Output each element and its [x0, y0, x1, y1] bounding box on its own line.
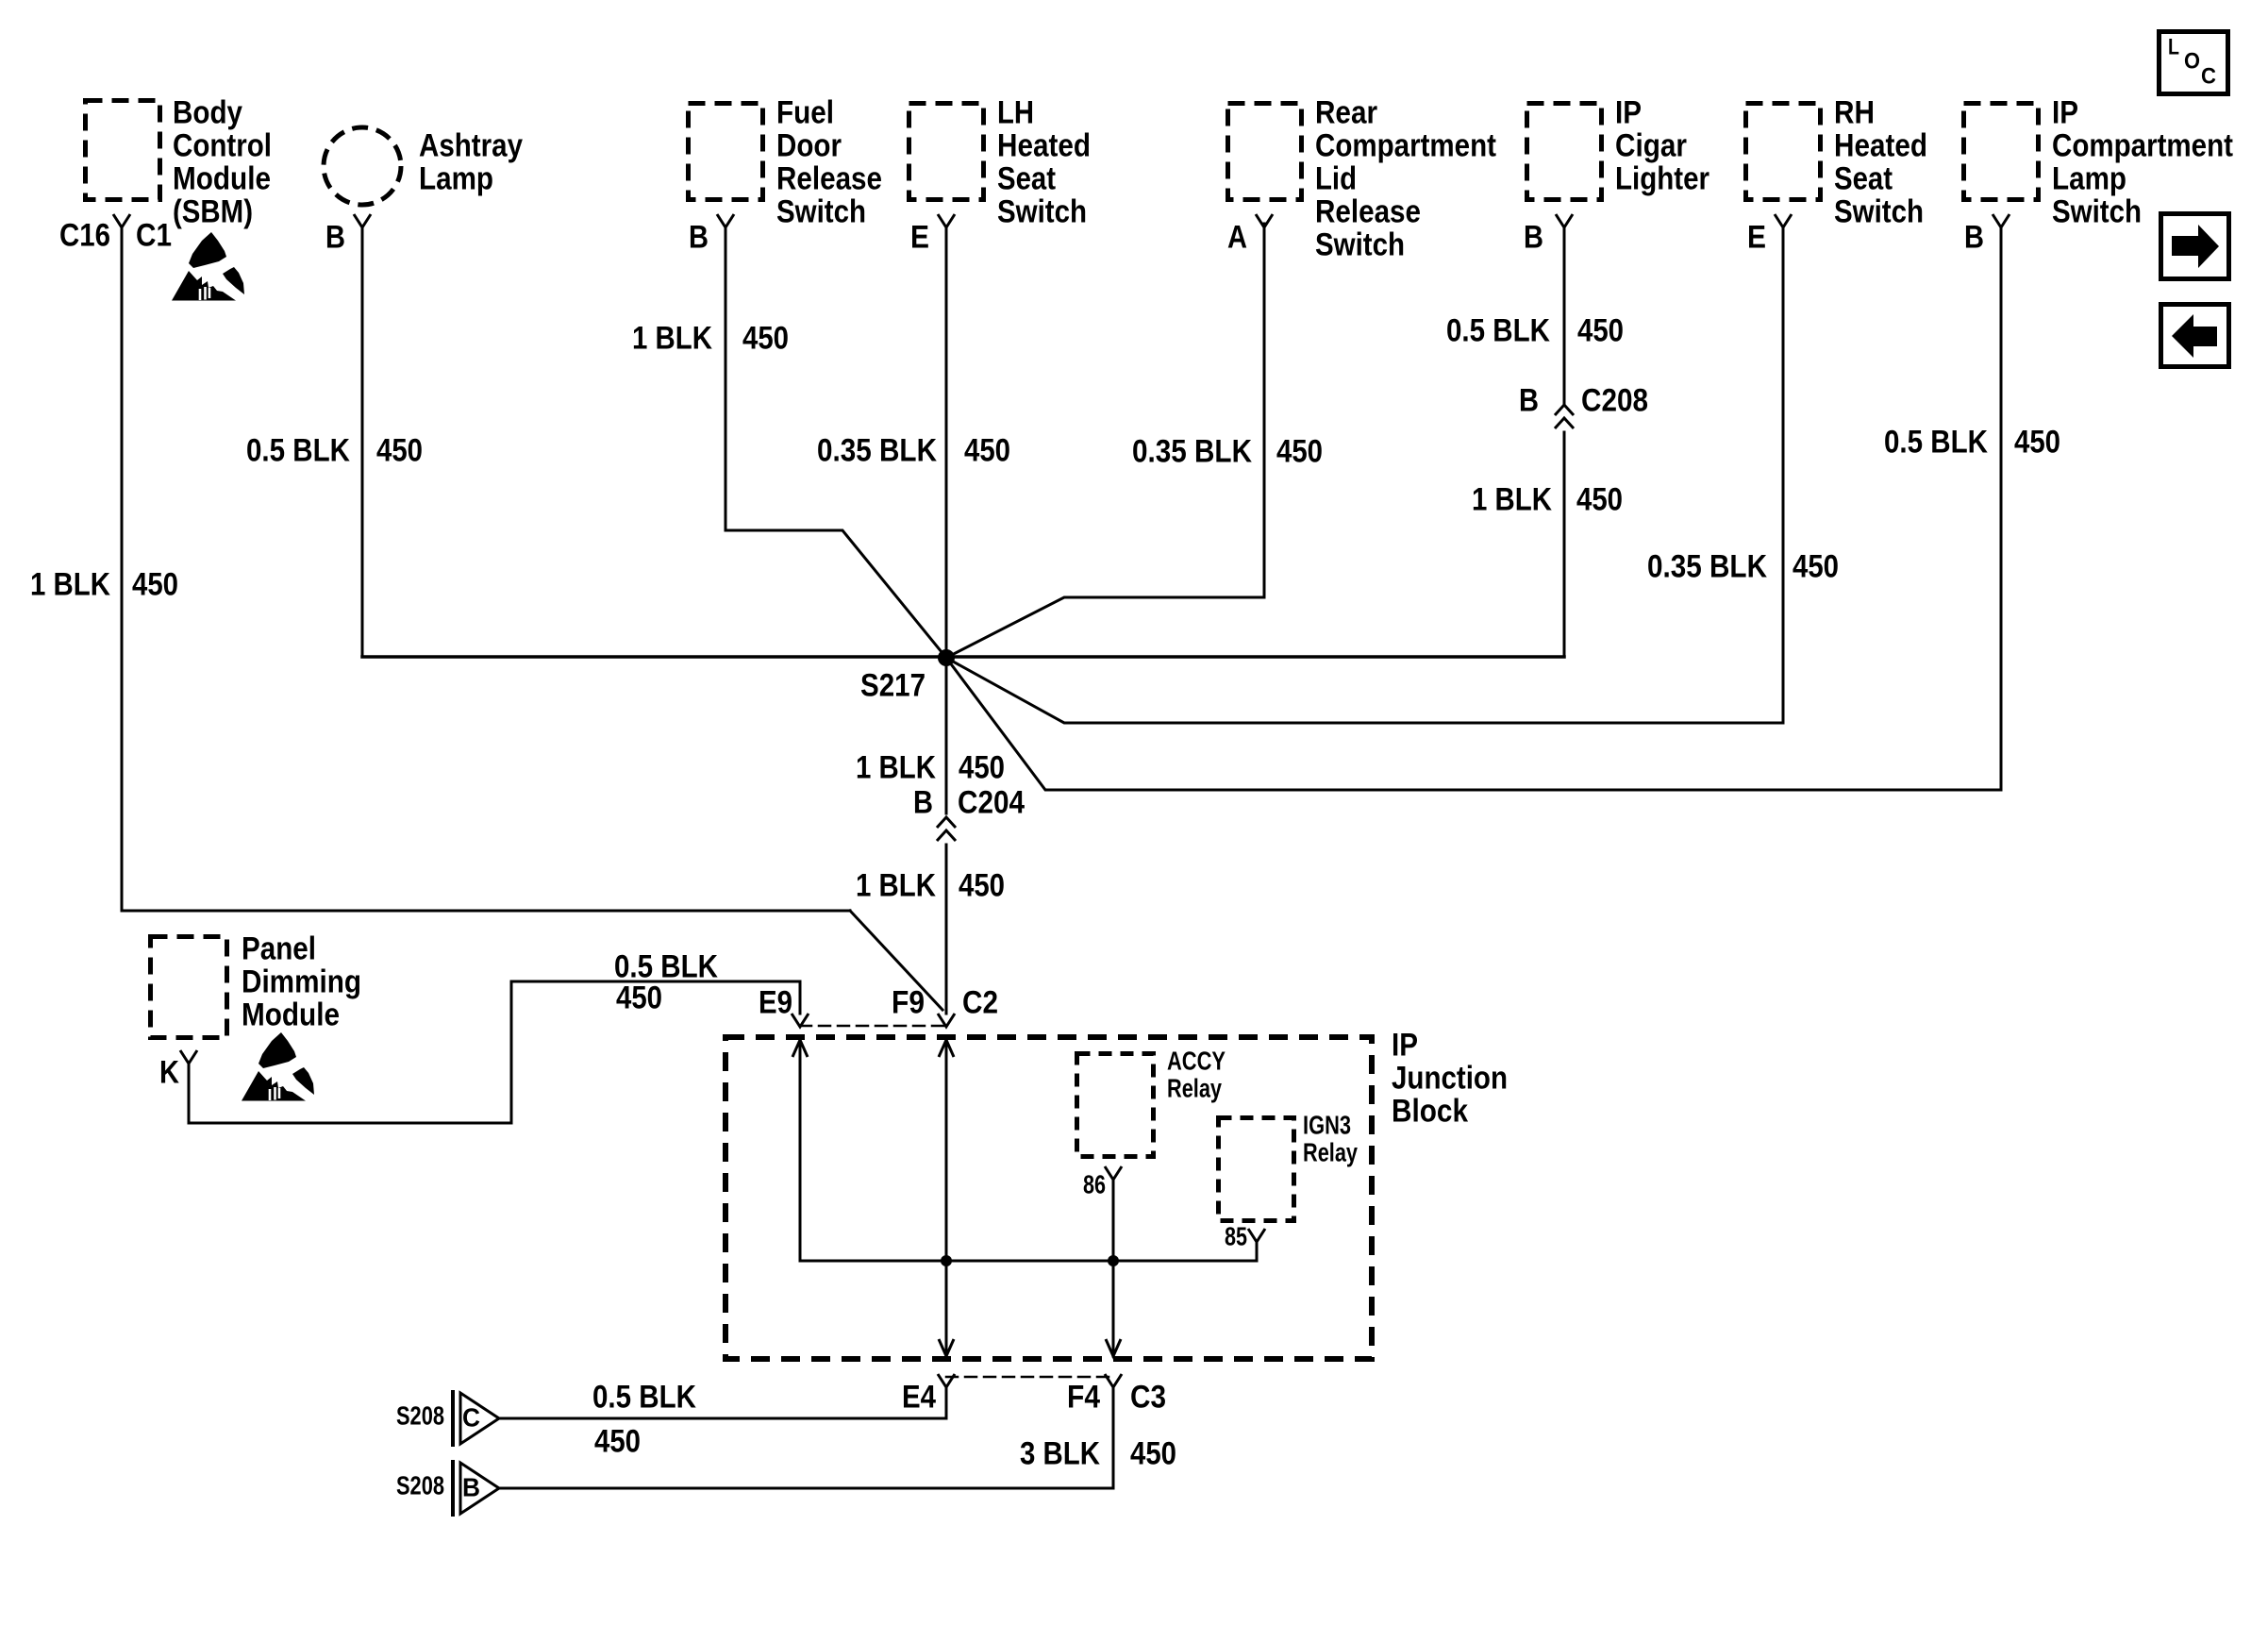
svg-text:C3: C3 — [1130, 1379, 1166, 1415]
svg-text:Module: Module — [173, 160, 271, 196]
svg-text:450: 450 — [2014, 424, 2060, 460]
svg-text:0.35 BLK: 0.35 BLK — [1647, 548, 1767, 584]
svg-text:Module: Module — [242, 997, 340, 1032]
svg-text:E: E — [910, 219, 929, 255]
svg-text:450: 450 — [959, 749, 1005, 785]
svg-text:S208: S208 — [396, 1400, 444, 1430]
svg-text:1 BLK: 1 BLK — [1472, 481, 1552, 517]
rear compartment lid release switch box (dashed) — [1228, 104, 1302, 200]
panel dimming module box (dashed) — [151, 937, 227, 1038]
wire BCM C16/C1 ground 1 BLK 450 — [122, 227, 850, 911]
svg-text:S208: S208 — [396, 1470, 444, 1500]
splice S217 — [938, 649, 955, 666]
svg-text:0.5 BLK: 0.5 BLK — [246, 432, 350, 468]
svg-text:Seat: Seat — [997, 160, 1056, 196]
wire E9 to bus — [799, 1040, 802, 1261]
svg-text:0.5 BLK: 0.5 BLK — [592, 1379, 696, 1415]
svg-text:Release: Release — [776, 160, 882, 196]
svg-text:C1: C1 — [136, 217, 172, 253]
svg-text:0.35 BLK: 0.35 BLK — [1132, 433, 1252, 469]
svg-text:B: B — [462, 1472, 480, 1501]
svg-text:1 BLK: 1 BLK — [30, 566, 110, 602]
svg-text:A: A — [1227, 219, 1247, 255]
svg-text:Lid: Lid — [1315, 160, 1357, 196]
svg-text:450: 450 — [616, 980, 662, 1015]
wire fuel door B to S217 — [725, 227, 946, 658]
connector face dashed line E4-F4 — [946, 1376, 1113, 1379]
svg-text:E4: E4 — [902, 1379, 936, 1415]
ashtray lamp (dashed circle) — [324, 127, 401, 205]
svg-text:Junction: Junction — [1392, 1060, 1508, 1096]
IP cigar lighter box (dashed) — [1527, 104, 1602, 200]
wire panel dimming K to E9 — [189, 981, 800, 1123]
wire E4 to splice S208 C — [500, 1387, 946, 1418]
svg-text:B: B — [1524, 219, 1543, 255]
svg-text:IP: IP — [1615, 94, 1642, 130]
svg-text:Rear: Rear — [1315, 94, 1377, 130]
svg-text:450: 450 — [1576, 481, 1623, 517]
wire 85 to bus — [1256, 1242, 1259, 1261]
fork F9/C2 — [938, 1014, 955, 1027]
svg-text:RH: RH — [1834, 94, 1875, 130]
svg-text:E: E — [1747, 219, 1766, 255]
fork B cigar — [1556, 214, 1573, 227]
wire F9 through bus to C3 exit — [945, 1040, 948, 1356]
wire F4/C3 to splice S208 B — [500, 1387, 1113, 1488]
svg-text:450: 450 — [1577, 312, 1624, 348]
svg-text:Ashtray: Ashtray — [419, 127, 523, 163]
svg-text:C204: C204 — [958, 784, 1025, 820]
wire ashtray lamp B down — [361, 227, 364, 657]
ACCY relay box (dashed) — [1077, 1054, 1154, 1157]
fork B IP lamp — [1993, 214, 2010, 227]
left arrow nav box — [2161, 305, 2229, 367]
svg-text:ACCY: ACCY — [1167, 1046, 1226, 1075]
wire C204 to C2/F9 — [945, 845, 948, 1014]
svg-text:Lamp: Lamp — [2052, 160, 2126, 196]
svg-text:L: L — [2168, 35, 2179, 60]
svg-text:Control: Control — [173, 127, 272, 163]
splice S208 pin C off-page symbol — [451, 1390, 455, 1447]
main horizontal wire into S217 — [362, 655, 1564, 659]
fork F4/C3 — [1105, 1374, 1122, 1387]
arrow out of block at F4 — [1106, 1339, 1121, 1356]
svg-text:Lamp: Lamp — [419, 160, 493, 196]
svg-text:Switch: Switch — [997, 193, 1087, 229]
fork E LH seat — [938, 214, 955, 227]
svg-text:3 BLK: 3 BLK — [1020, 1435, 1100, 1471]
wire rear lid A to S217 — [946, 224, 1264, 658]
IP junction block (dashed) — [725, 1037, 1372, 1359]
svg-text:S217: S217 — [860, 667, 926, 703]
svg-text:Panel: Panel — [242, 930, 316, 966]
LH heated seat switch box (dashed) — [909, 104, 984, 200]
svg-text:450: 450 — [376, 432, 423, 468]
wire diagonal BCM to C2 — [850, 911, 942, 1010]
wire cigar below C208 to S217 — [1563, 432, 1566, 657]
fork E RH seat — [1775, 214, 1792, 227]
svg-text:1 BLK: 1 BLK — [856, 749, 936, 785]
fork A rear lid — [1256, 214, 1273, 227]
fork E9 — [792, 1014, 809, 1027]
wire 86 to bus and down to F4 — [1112, 1180, 1115, 1356]
svg-text:C2: C2 — [962, 984, 998, 1020]
svg-text:450: 450 — [1130, 1435, 1176, 1471]
svg-text:Compartment: Compartment — [2052, 127, 2233, 163]
svg-text:0.5 BLK: 0.5 BLK — [1884, 424, 1988, 460]
svg-text:IP: IP — [2052, 94, 2078, 130]
svg-text:O: O — [2184, 49, 2200, 75]
svg-text:B: B — [1964, 219, 1984, 255]
svg-text:E9: E9 — [759, 984, 792, 1020]
wire LH seat E down through S217 to C204 — [945, 227, 948, 813]
svg-text:Heated: Heated — [1834, 127, 1927, 163]
svg-text:0.35 BLK: 0.35 BLK — [817, 432, 937, 468]
svg-text:0.5 BLK: 0.5 BLK — [1446, 312, 1550, 348]
svg-text:1 BLK: 1 BLK — [632, 320, 712, 356]
svg-text:B: B — [689, 219, 709, 255]
svg-text:450: 450 — [742, 320, 789, 356]
svg-text:Switch: Switch — [776, 193, 866, 229]
svg-text:F9: F9 — [892, 984, 925, 1020]
svg-text:C16: C16 — [59, 217, 110, 253]
svg-text:(SBM): (SBM) — [173, 193, 253, 229]
svg-text:Heated: Heated — [997, 127, 1091, 163]
ESD sensitive device symbol (BCM) — [172, 232, 244, 301]
svg-text:Cigar: Cigar — [1615, 127, 1687, 163]
IP compartment lamp switch box (dashed) — [1964, 104, 2039, 200]
svg-text:IGN3: IGN3 — [1303, 1110, 1351, 1139]
fuel door release switch box (dashed) — [689, 104, 763, 200]
svg-text:86: 86 — [1083, 1169, 1106, 1199]
svg-text:85: 85 — [1225, 1221, 1247, 1250]
arrow out of block at E4 — [939, 1339, 954, 1356]
ESD sensitive device symbol (panel dimming) — [242, 1032, 314, 1101]
IGN3 relay box (dashed) — [1219, 1118, 1294, 1221]
svg-text:B: B — [325, 219, 345, 255]
junction dot bus/86 — [1108, 1255, 1119, 1266]
svg-text:Switch: Switch — [2052, 193, 2142, 229]
svg-text:Release: Release — [1315, 193, 1421, 229]
svg-text:Seat: Seat — [1834, 160, 1893, 196]
svg-text:450: 450 — [1276, 433, 1323, 469]
svg-text:C: C — [462, 1402, 480, 1432]
svg-text:Dimming: Dimming — [242, 964, 361, 999]
svg-text:Block: Block — [1392, 1093, 1468, 1129]
svg-text:B: B — [913, 784, 933, 820]
wire cigar B down to C208 — [1563, 227, 1566, 403]
wire IP lamp B to S217 — [946, 227, 2001, 790]
body control module box (dashed) — [86, 101, 160, 200]
fork 85 IGN3 relay — [1248, 1229, 1265, 1242]
svg-text:B: B — [1519, 382, 1539, 418]
connector C204 symbol — [937, 817, 956, 841]
ground bus inside junction block — [800, 1260, 1257, 1263]
svg-text:1 BLK: 1 BLK — [856, 867, 936, 903]
svg-text:Lighter: Lighter — [1615, 160, 1709, 196]
LOC reference box — [2160, 32, 2228, 94]
svg-text:Fuel: Fuel — [776, 94, 834, 130]
connector face dashed line E9-F9 — [800, 1025, 946, 1028]
arrow into block at E9 — [792, 1040, 808, 1057]
svg-text:Relay: Relay — [1167, 1073, 1222, 1102]
svg-text:450: 450 — [959, 867, 1005, 903]
svg-text:Switch: Switch — [1834, 193, 1924, 229]
svg-text:450: 450 — [1793, 548, 1839, 584]
svg-text:450: 450 — [594, 1423, 641, 1459]
fork B fuel door — [717, 214, 734, 227]
svg-text:F4: F4 — [1067, 1379, 1100, 1415]
RH heated seat switch box (dashed) — [1746, 104, 1821, 200]
fork E4 — [938, 1374, 955, 1387]
svg-text:K: K — [159, 1054, 179, 1090]
right arrow nav box — [2161, 214, 2229, 279]
wire RH seat E to S217 — [946, 227, 1783, 723]
svg-text:C: C — [2201, 64, 2216, 90]
connector C208 symbol — [1555, 405, 1574, 428]
svg-text:C208: C208 — [1581, 382, 1648, 418]
splice S208 pin B off-page symbol — [451, 1460, 455, 1517]
junction dot bus/F9 — [941, 1255, 952, 1266]
svg-text:Switch: Switch — [1315, 226, 1405, 262]
svg-text:450: 450 — [132, 566, 178, 602]
svg-text:LH: LH — [997, 94, 1034, 130]
fork B ashtray — [354, 214, 371, 227]
svg-text:Compartment: Compartment — [1315, 127, 1496, 163]
svg-text:Door: Door — [776, 127, 842, 163]
connector fork C16/C1 — [113, 214, 130, 227]
svg-text:Body: Body — [173, 94, 242, 130]
fork 86 ACCY relay — [1105, 1166, 1122, 1180]
arrow into block at F9 — [939, 1040, 954, 1057]
svg-text:450: 450 — [964, 432, 1010, 468]
svg-text:Relay: Relay — [1303, 1137, 1358, 1166]
svg-text:IP: IP — [1392, 1027, 1418, 1063]
fork K panel dimming — [180, 1050, 197, 1064]
